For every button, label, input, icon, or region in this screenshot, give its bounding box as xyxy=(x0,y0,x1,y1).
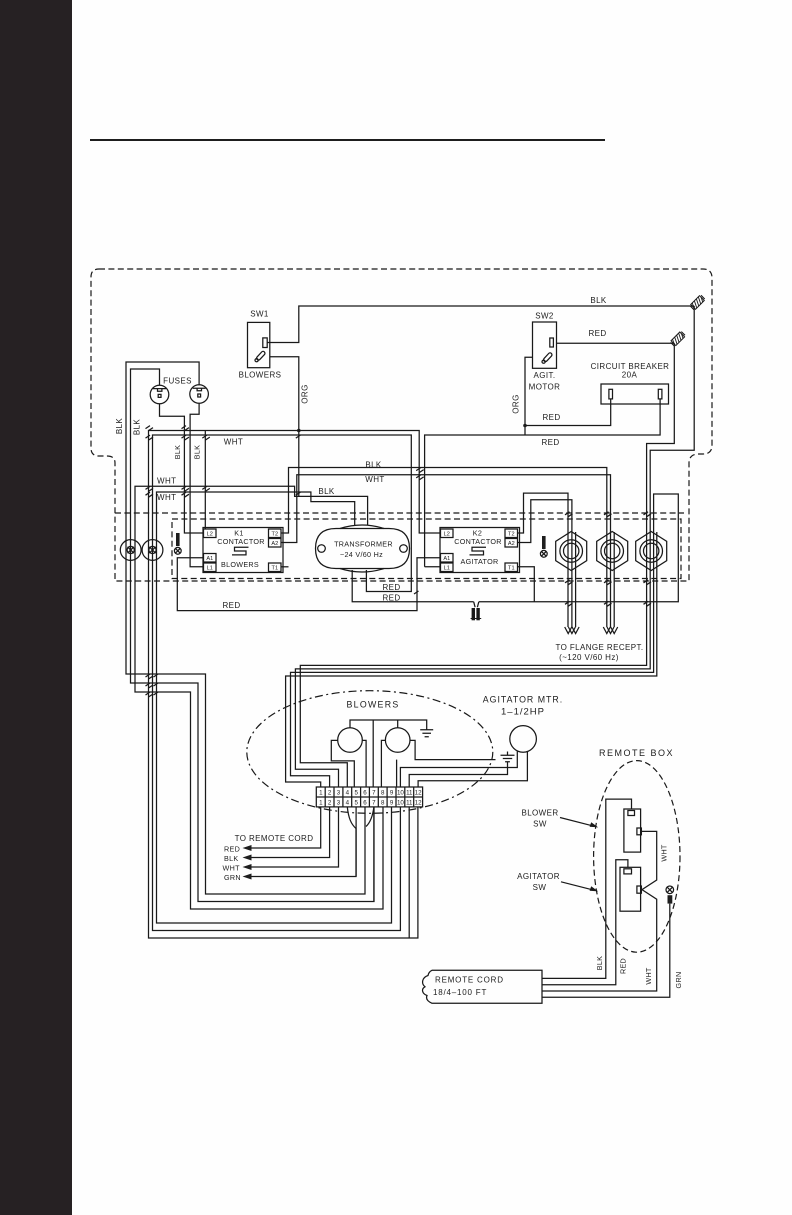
wire RED1 to CB left pin xyxy=(525,399,611,426)
junction node ORG/BLK-main xyxy=(297,429,301,433)
wire RED2 right half to CB right pin xyxy=(425,399,660,567)
svg-text:A2: A2 xyxy=(508,541,515,547)
svg-text:8: 8 xyxy=(381,800,385,807)
wire agitator lead 2 to cell 12 xyxy=(418,751,527,787)
svg-text:6: 6 xyxy=(363,800,367,807)
wire GRN remote xyxy=(542,904,670,998)
svg-text:WHT: WHT xyxy=(157,493,176,502)
wire top BLK from SW1 to top-right arrow xyxy=(267,306,694,343)
svg-text:11: 11 xyxy=(406,790,413,797)
svg-text:L2: L2 xyxy=(207,532,213,538)
svg-text:TO REMOTE CORD: TO REMOTE CORD xyxy=(235,834,314,843)
svg-text:WHT: WHT xyxy=(644,967,653,985)
ground symbol (agitator) xyxy=(501,752,515,762)
svg-text:3: 3 xyxy=(337,800,341,807)
svg-text:GRN: GRN xyxy=(224,873,241,882)
svg-text:BLOWERS: BLOWERS xyxy=(346,700,399,710)
wire strip cell 1 to remote cord RED xyxy=(249,807,321,848)
svg-text:BLK: BLK xyxy=(224,854,239,863)
wire agitator lead 1 to cell 10 xyxy=(400,751,517,787)
wire strip cell 5 drop xyxy=(355,807,357,877)
svg-text:RED: RED xyxy=(222,601,240,610)
svg-text:CONTACTOR: CONTACTOR xyxy=(454,537,502,546)
svg-text:BLK: BLK xyxy=(595,956,604,971)
grommet G1 xyxy=(120,540,141,561)
receptacle R3 xyxy=(636,532,667,571)
arrowheads flange group 1 xyxy=(565,627,579,634)
terminal strip TB1 xyxy=(316,787,422,807)
indicator lamp near K1 xyxy=(174,533,181,554)
svg-text:RED: RED xyxy=(619,958,628,974)
wire strip cell 7 drop xyxy=(366,807,374,902)
svg-text:RED: RED xyxy=(382,583,400,592)
blower motor B2 xyxy=(385,728,410,753)
wire strip cell 4 to remote cord GRN xyxy=(249,807,356,877)
wire RED arrow drop to receptacle R3 xyxy=(647,343,675,562)
wire K2 T1 drop xyxy=(518,567,535,602)
wire motor tops to ground xyxy=(350,720,427,787)
wire strip cell 11 drop xyxy=(408,807,410,938)
disconnect plug P1 xyxy=(471,602,482,621)
svg-text:12: 12 xyxy=(415,790,422,797)
svg-text:~24 V/60 Hz: ~24 V/60 Hz xyxy=(340,550,383,559)
svg-text:2: 2 xyxy=(328,800,332,807)
svg-text:T2: T2 xyxy=(508,532,515,538)
svg-text:RED: RED xyxy=(382,594,400,603)
transformer T1 xyxy=(316,525,410,572)
svg-text:WHT: WHT xyxy=(157,476,176,485)
svg-text:FUSES: FUSES xyxy=(163,377,192,386)
svg-text:AGITATOR: AGITATOR xyxy=(517,872,560,881)
arrowheads flange group 2 xyxy=(603,627,617,634)
svg-text:SW: SW xyxy=(533,820,547,829)
wires receptacle R3 bundle to terminal strip cells 1-4 xyxy=(286,532,657,787)
svg-text:20A: 20A xyxy=(622,371,638,380)
svg-text:BLK: BLK xyxy=(133,419,142,436)
svg-text:2: 2 xyxy=(328,790,332,797)
wire ORG from SW1 down to transformer primary xyxy=(270,357,299,497)
indicator lamp near K2 xyxy=(540,536,547,557)
wire K2 T2 over to receptacle R1 xyxy=(518,493,569,562)
svg-text:WHT: WHT xyxy=(223,864,241,873)
crossing ticks (hop marks) xyxy=(146,426,652,697)
leader line to agitator switch xyxy=(561,882,598,892)
wire blower B2 bracket right xyxy=(410,740,496,759)
svg-text:A1: A1 xyxy=(206,556,213,562)
wire blower B2 bracket left to cell 8 xyxy=(381,740,385,787)
svg-text:BLK: BLK xyxy=(590,296,607,305)
contactor K2 xyxy=(440,528,520,573)
svg-text:RED: RED xyxy=(588,329,606,338)
contactor K1 xyxy=(203,528,283,573)
wire cell 9 stub xyxy=(396,760,398,787)
svg-text:7: 7 xyxy=(372,790,376,797)
svg-text:WHT: WHT xyxy=(660,844,669,862)
wire fuse feed top (to F2) xyxy=(126,362,365,894)
svg-text:RED: RED xyxy=(542,413,560,422)
wire WHT feed 2 (to transformer primary inner) xyxy=(157,492,392,923)
wire WHT remote daisy chain xyxy=(542,831,657,991)
svg-text:5: 5 xyxy=(354,800,358,807)
wire K1 T1 stub xyxy=(281,566,289,568)
svg-text:BLOWERS: BLOWERS xyxy=(221,560,259,569)
wire RED from SW2 to arrow xyxy=(557,342,675,344)
svg-text:REMOTE BOX: REMOTE BOX xyxy=(599,748,674,758)
svg-text:9: 9 xyxy=(390,800,394,807)
svg-text:7: 7 xyxy=(372,800,376,807)
svg-text:L1: L1 xyxy=(444,566,450,572)
wire BLK remote xyxy=(542,799,632,978)
svg-text:BLOWER: BLOWER xyxy=(521,809,558,818)
wire K2 A2 over to receptacle R1 xyxy=(518,500,572,562)
wire K2 A1 red link xyxy=(177,558,441,611)
ground symbol (blowers) xyxy=(420,730,433,737)
svg-text:WHT: WHT xyxy=(365,475,384,484)
svg-text:L2: L2 xyxy=(444,532,450,538)
wire fuse feed (to F1) xyxy=(131,369,375,902)
wire BLK main distribution xyxy=(149,431,442,939)
wire WHT feed 1 (to transformer primary outer) xyxy=(135,486,383,909)
svg-text:BLOWERS: BLOWERS xyxy=(239,371,282,380)
blower motor B1 xyxy=(338,728,363,753)
svg-text:AGIT.: AGIT. xyxy=(533,371,555,380)
svg-text:18/4–100 FT: 18/4–100 FT xyxy=(433,988,487,997)
fuse F1 xyxy=(150,385,169,404)
svg-text:SW1: SW1 xyxy=(250,310,269,319)
svg-text:ORG: ORG xyxy=(512,394,521,413)
wires receptacle R1 to flange arrows xyxy=(568,532,576,627)
remote box dashed ellipse xyxy=(594,761,680,953)
svg-text:REMOTE CORD: REMOTE CORD xyxy=(435,976,504,985)
wire fuse F2 output down to K1 L1 xyxy=(190,403,203,567)
svg-text:A1: A1 xyxy=(443,556,450,562)
svg-text:RED: RED xyxy=(541,438,559,447)
svg-text:TRANSFORMER: TRANSFORMER xyxy=(334,539,393,548)
agitator motor M1 xyxy=(510,726,537,753)
svg-text:4: 4 xyxy=(346,790,350,797)
circuit breaker CB 20A xyxy=(601,384,669,404)
wire BLK arrow drop to receptacle R3 xyxy=(650,306,694,562)
remote cord box xyxy=(423,970,542,1003)
svg-text:T1: T1 xyxy=(272,566,279,572)
svg-text:8: 8 xyxy=(381,790,385,797)
wire RED2 left / transformer secondary xyxy=(153,435,412,931)
svg-text:BLK: BLK xyxy=(365,461,382,470)
dashed panel strip top edge xyxy=(115,512,684,514)
svg-text:SW: SW xyxy=(533,883,547,892)
grommet G2 xyxy=(142,540,163,561)
wire blower B1 bracket left to cell 5 xyxy=(331,740,354,787)
svg-text:A2: A2 xyxy=(271,541,278,547)
svg-text:TO FLANGE RECEPT.: TO FLANGE RECEPT. xyxy=(555,643,643,652)
svg-text:10: 10 xyxy=(397,800,404,807)
svg-text:11: 11 xyxy=(406,800,413,807)
svg-text:BLK: BLK xyxy=(173,445,182,460)
ground lug (remote box) xyxy=(666,886,674,904)
svg-text:WHT: WHT xyxy=(224,438,243,447)
svg-text:CONTACTOR: CONTACTOR xyxy=(217,537,265,546)
svg-text:1: 1 xyxy=(319,790,323,797)
switch SW2 xyxy=(533,322,557,368)
wire BLK drop to K1 L2 top xyxy=(204,431,206,530)
blowers enclosure ellipse xyxy=(247,691,493,814)
wire blower B1 bracket right to cell 6 xyxy=(362,740,366,787)
wires receptacle R2 to flange arrows xyxy=(607,532,614,627)
leader line to blower switch xyxy=(560,818,598,828)
wire RED remote xyxy=(542,860,628,985)
svg-text:5: 5 xyxy=(354,790,358,797)
outer dashed enclosure border xyxy=(91,269,712,581)
wire K1 A2 to WHT bus to receptacle R2 xyxy=(281,475,611,562)
svg-text:12: 12 xyxy=(415,800,422,807)
svg-text:1: 1 xyxy=(319,800,323,807)
switch SW1 xyxy=(248,322,270,367)
inner dashed rect around contactor strip xyxy=(172,519,681,579)
svg-text:10: 10 xyxy=(397,790,404,797)
svg-text:RED: RED xyxy=(224,845,240,854)
remote cord arrowheads xyxy=(243,845,252,880)
svg-text:3: 3 xyxy=(337,790,341,797)
svg-text:6: 6 xyxy=(363,790,367,797)
svg-text:T1: T1 xyxy=(508,566,515,572)
svg-text:BLK: BLK xyxy=(318,487,335,496)
wire strip cell 2 to remote cord BLK xyxy=(249,807,330,858)
connector arrow (RED) xyxy=(670,331,686,347)
receptacle R2 xyxy=(597,532,628,571)
svg-text:SW2: SW2 xyxy=(535,311,554,320)
wire ORG from SW2 down xyxy=(525,357,533,435)
svg-text:BLK: BLK xyxy=(115,418,124,435)
fuse F2 xyxy=(190,385,209,404)
svg-text:ORG: ORG xyxy=(301,384,310,403)
svg-text:AGITATOR MTR.: AGITATOR MTR. xyxy=(483,695,563,705)
connector arrow top right (BLK) xyxy=(690,295,706,311)
svg-text:T2: T2 xyxy=(272,532,279,538)
agitator switch (remote) xyxy=(620,867,641,911)
svg-text:AGITATOR: AGITATOR xyxy=(461,557,499,566)
receptacle R1 xyxy=(556,532,587,571)
top horizontal rule xyxy=(90,139,605,141)
wire transformer secondary red with disconnect xyxy=(352,494,678,602)
black sidebar xyxy=(0,0,72,1215)
svg-text:BLK: BLK xyxy=(193,445,202,460)
svg-text:4: 4 xyxy=(346,800,350,807)
svg-text:GRN: GRN xyxy=(674,972,683,989)
svg-text:MOTOR: MOTOR xyxy=(529,383,561,392)
wire strip cell 3 to remote cord WHT xyxy=(249,807,339,867)
junction node ORG/RED1 xyxy=(523,424,527,428)
wire fuse F1 output down to K1 L2 xyxy=(160,404,204,533)
svg-text:(~120 V/60 Hz): (~120 V/60 Hz) xyxy=(559,653,619,662)
wire K1 T2 to BLK bus to receptacle R2 xyxy=(281,468,607,563)
blower switch (remote) xyxy=(624,809,642,852)
svg-text:9: 9 xyxy=(390,790,394,797)
svg-text:L1: L1 xyxy=(207,566,213,572)
wire agitator ground to cell 11 xyxy=(409,762,507,787)
svg-text:1–1/2HP: 1–1/2HP xyxy=(501,707,545,718)
